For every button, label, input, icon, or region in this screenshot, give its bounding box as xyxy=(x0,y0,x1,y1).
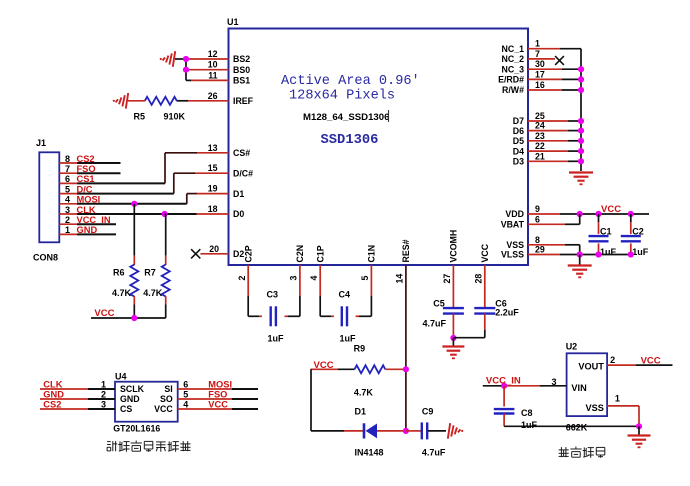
svg-text:18: 18 xyxy=(208,204,218,214)
svg-text:6: 6 xyxy=(535,214,540,224)
svg-text:8: 8 xyxy=(535,235,540,245)
svg-text:26: 26 xyxy=(208,91,218,101)
svg-text:1uF: 1uF xyxy=(268,334,285,344)
svg-text:1: 1 xyxy=(615,394,620,404)
svg-text:Active Area 0.96': Active Area 0.96' xyxy=(281,74,420,89)
svg-text:VSS: VSS xyxy=(586,403,604,413)
svg-text:3: 3 xyxy=(289,276,299,281)
svg-text:D3: D3 xyxy=(513,157,524,167)
svg-text:SSD1306: SSD1306 xyxy=(321,133,379,148)
svg-text:GND: GND xyxy=(43,390,64,400)
svg-text:1uF: 1uF xyxy=(521,420,538,430)
svg-text:C4: C4 xyxy=(339,290,351,300)
svg-text:16: 16 xyxy=(535,80,545,90)
svg-text:5: 5 xyxy=(360,276,370,281)
svg-text:15: 15 xyxy=(208,163,218,173)
svg-text:SCLK: SCLK xyxy=(120,384,145,394)
svg-text:2.2uF: 2.2uF xyxy=(495,308,519,318)
svg-text:662K: 662K xyxy=(566,423,588,433)
svg-text:BS1: BS1 xyxy=(233,76,250,86)
svg-text:C2P: C2P xyxy=(244,245,254,262)
svg-text:D1: D1 xyxy=(355,407,367,417)
svg-text:VLSS: VLSS xyxy=(501,250,524,260)
svg-text:VOUT: VOUT xyxy=(578,362,604,372)
svg-text:R7: R7 xyxy=(144,268,156,278)
svg-text:19: 19 xyxy=(208,184,218,194)
svg-text:28: 28 xyxy=(474,274,484,284)
svg-text:17: 17 xyxy=(535,69,545,79)
svg-text:D4: D4 xyxy=(513,146,524,156)
svg-text:4.7K: 4.7K xyxy=(112,288,132,298)
svg-text:FSO: FSO xyxy=(208,390,227,400)
svg-text:E/RD#: E/RD# xyxy=(498,75,524,85)
svg-text:VCC_IN: VCC_IN xyxy=(486,376,521,387)
svg-text:29: 29 xyxy=(535,245,545,255)
svg-text:R5: R5 xyxy=(134,112,146,122)
svg-text:C1P: C1P xyxy=(316,245,326,262)
svg-text:4.7uF: 4.7uF xyxy=(423,319,447,329)
svg-text:9: 9 xyxy=(535,204,540,214)
svg-text:VCC: VCC xyxy=(208,400,228,410)
svg-text:IN4148: IN4148 xyxy=(355,448,384,458)
svg-text:4.7uF: 4.7uF xyxy=(422,448,446,458)
svg-text:4.7K: 4.7K xyxy=(354,388,374,398)
svg-text:CS: CS xyxy=(120,404,132,414)
svg-text:NC_1: NC_1 xyxy=(502,44,525,54)
svg-text:CS2: CS2 xyxy=(43,400,61,410)
svg-text:D0: D0 xyxy=(233,209,244,219)
svg-text:RES#: RES# xyxy=(401,239,411,262)
svg-text:VCC: VCC xyxy=(480,243,490,262)
svg-text:NC_3: NC_3 xyxy=(502,64,525,74)
svg-text:12: 12 xyxy=(208,49,218,59)
svg-text:2: 2 xyxy=(610,355,615,365)
svg-text:MOSI: MOSI xyxy=(208,380,232,390)
svg-text:U2: U2 xyxy=(566,342,578,352)
svg-text:BS2: BS2 xyxy=(233,54,250,64)
svg-text:2: 2 xyxy=(237,276,247,281)
svg-text:30: 30 xyxy=(535,59,545,69)
svg-text:C3: C3 xyxy=(267,290,279,300)
svg-text:CLK: CLK xyxy=(43,380,62,390)
svg-text:C9: C9 xyxy=(422,407,434,417)
svg-text:11: 11 xyxy=(208,70,217,80)
svg-text:VIN: VIN xyxy=(571,383,587,393)
svg-text:VCC: VCC xyxy=(601,204,621,215)
svg-text:C2: C2 xyxy=(632,227,644,237)
svg-text:C8: C8 xyxy=(521,408,533,418)
svg-text:24: 24 xyxy=(535,121,545,131)
svg-text:R9: R9 xyxy=(354,344,366,354)
svg-text:23: 23 xyxy=(535,131,545,141)
svg-text:VCOMH: VCOMH xyxy=(449,230,459,263)
svg-text:NC_2: NC_2 xyxy=(502,54,525,64)
svg-text:C2N: C2N xyxy=(295,245,305,263)
svg-text:C1N: C1N xyxy=(367,245,377,263)
svg-text:D1: D1 xyxy=(233,189,244,199)
svg-text:J1: J1 xyxy=(36,138,46,148)
svg-text:4: 4 xyxy=(309,276,319,281)
svg-text:128x64 Pixels: 128x64 Pixels xyxy=(289,89,395,104)
svg-text:C5: C5 xyxy=(433,299,445,309)
svg-text:1uF: 1uF xyxy=(340,334,357,344)
svg-text:22: 22 xyxy=(535,141,545,151)
svg-text:6: 6 xyxy=(183,380,188,390)
svg-text:D7: D7 xyxy=(513,116,524,126)
svg-text:IREF: IREF xyxy=(233,96,254,106)
svg-text:4.7K: 4.7K xyxy=(143,288,163,298)
svg-text:VDD: VDD xyxy=(505,209,524,219)
svg-text:25: 25 xyxy=(535,111,545,121)
svg-text:1uF: 1uF xyxy=(600,247,617,257)
svg-text:20: 20 xyxy=(209,244,219,254)
svg-text:4: 4 xyxy=(183,400,188,410)
svg-text:CS#: CS# xyxy=(233,148,250,158)
svg-text:5: 5 xyxy=(183,390,188,400)
svg-text:1uF: 1uF xyxy=(632,247,649,257)
svg-text:13: 13 xyxy=(208,143,218,153)
svg-text:U1: U1 xyxy=(227,17,239,27)
svg-text:R/W#: R/W# xyxy=(502,85,524,95)
svg-text:910K: 910K xyxy=(164,112,186,122)
svg-text:U4: U4 xyxy=(115,372,127,382)
svg-text:10: 10 xyxy=(208,60,218,70)
svg-text:D6: D6 xyxy=(513,126,524,136)
svg-text:D5: D5 xyxy=(513,136,524,146)
svg-text:C1: C1 xyxy=(600,227,612,237)
svg-text:VCC: VCC xyxy=(94,308,114,319)
svg-text:VSS: VSS xyxy=(506,240,524,250)
svg-text:GND: GND xyxy=(120,394,140,404)
svg-text:BS0: BS0 xyxy=(233,65,250,75)
svg-text:R6: R6 xyxy=(113,268,125,278)
svg-text:M128_64_SSD1306: M128_64_SSD1306 xyxy=(303,112,389,123)
svg-text:7: 7 xyxy=(535,49,540,59)
svg-text:CON8: CON8 xyxy=(33,253,58,263)
svg-text:27: 27 xyxy=(442,274,452,284)
svg-text:14: 14 xyxy=(395,274,405,284)
svg-text:VCC: VCC xyxy=(154,404,173,414)
svg-text:VBAT: VBAT xyxy=(501,220,525,230)
svg-text:GT20L1616: GT20L1616 xyxy=(113,424,160,434)
svg-text:21: 21 xyxy=(535,151,545,161)
svg-text:D/C#: D/C# xyxy=(233,168,253,178)
svg-text:VCC: VCC xyxy=(641,356,661,367)
svg-text:1: 1 xyxy=(535,39,540,49)
svg-text:SI: SI xyxy=(164,384,172,394)
svg-text:SO: SO xyxy=(160,394,173,404)
